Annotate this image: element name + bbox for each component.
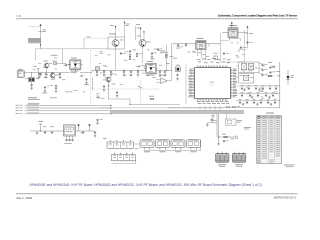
svg-text:Schematics, Component Location: Schematics, Component Location Diagrams … [218,14,298,18]
svg-text:MEPW4765C28-O: MEPW4765C28-O [274,196,296,200]
svg-text:HPN4000E and HPN4014D: VHF RF: HPN4000E and HPN4014D: VHF RF Board; HPN… [30,183,262,187]
svg-text:July 1, 2002: July 1, 2002 [16,196,33,200]
svg-text:7-16: 7-16 [16,14,22,18]
svg-text:PLL: PLL [210,84,213,86]
